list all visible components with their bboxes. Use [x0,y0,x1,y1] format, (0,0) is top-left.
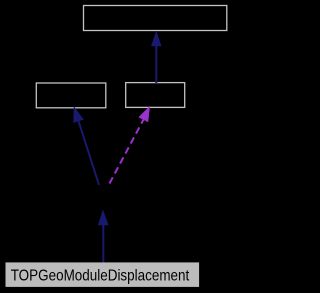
class box string (middle-right) [126,83,185,108]
arrow: bottom box to fan point [98,210,109,263]
class box TObject (top) [84,6,227,31]
inheritance arrow: middle-right box to top box [151,31,162,83]
inheritance arrow: fan point to middle-left box [73,106,99,185]
usage arrow (dashed): fan point to middle-right box [110,106,151,184]
class box TOPGeoModuleDisplacement (bottom, current) [6,262,200,287]
svg-text:TOPGeoModuleDisplacement: TOPGeoModuleDisplacement [11,267,190,284]
class box TOPGeoBase (middle-left) [36,83,106,108]
